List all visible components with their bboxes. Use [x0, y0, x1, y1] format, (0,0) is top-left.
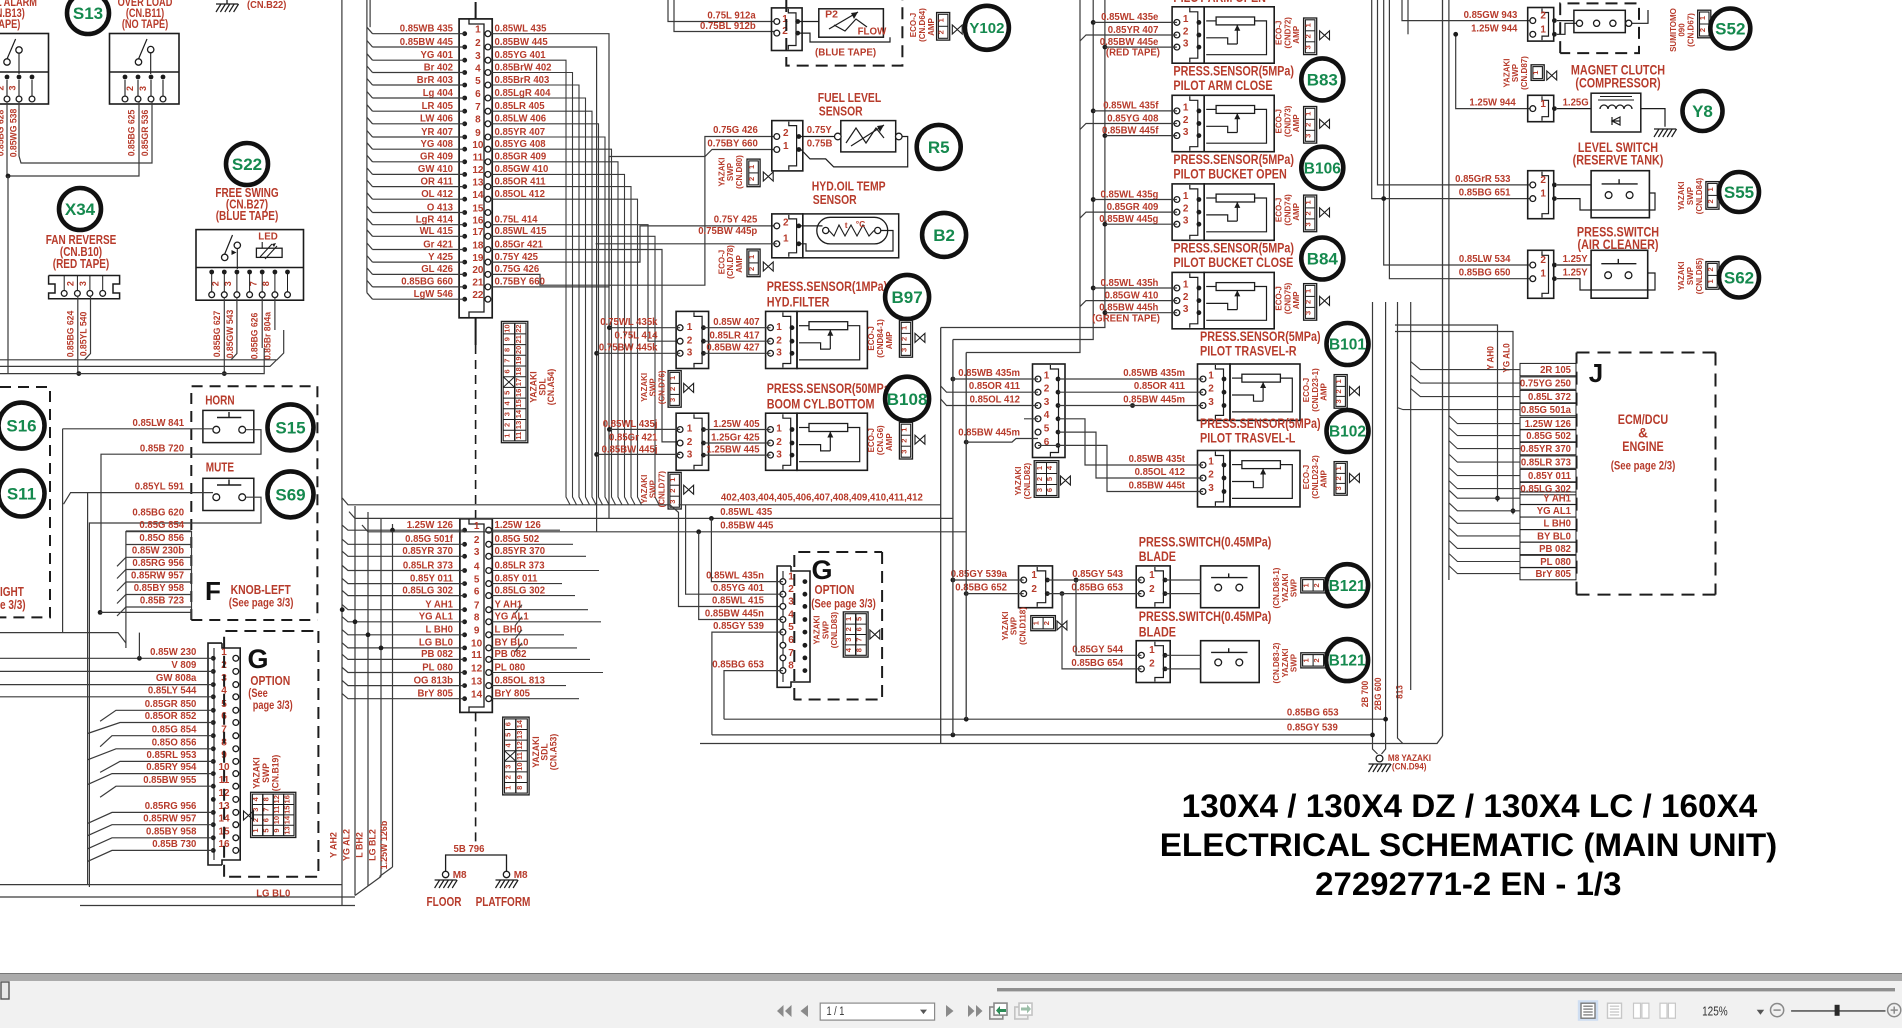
label S22 [226, 143, 268, 185]
svg-text:3: 3 [502, 412, 511, 416]
svg-text:R5: R5 [928, 138, 950, 157]
svg-text:3: 3 [8, 85, 18, 90]
wire 0.85BG 620 [89, 497, 261, 887]
pin 3 of 14-pin / net 0.85YR 370 [342, 546, 586, 559]
svg-text:7: 7 [474, 601, 480, 612]
svg-text:0.85BW 445: 0.85BW 445 [495, 37, 548, 48]
svg-text:1: 1 [668, 478, 677, 482]
title PRESS.SENSOR(5MPa) PILOT TRASVEL-L [1200, 416, 1321, 446]
svg-text:0.85BG 651: 0.85BG 651 [1459, 188, 1511, 199]
svg-text:2: 2 [900, 337, 909, 341]
wire 0.85GY 539 drop [712, 632, 783, 735]
wire 0.85B 720 [101, 430, 261, 613]
svg-text:HYD.FILTER: HYD.FILTER [767, 295, 830, 310]
svg-text:4: 4 [474, 561, 480, 572]
svg-text:0.85RG 956: 0.85RG 956 [132, 558, 184, 569]
zoom dropdown arrow [1757, 1010, 1765, 1015]
svg-text:3: 3 [1183, 127, 1189, 138]
left merge bus of 22-pin [367, 0, 370, 293]
pin 11 of 14-pin / net PB 082 [342, 649, 590, 662]
pin 16 of G option / wire 0.85B 730 [88, 839, 239, 861]
svg-text:B83: B83 [1307, 71, 1338, 90]
wire 0.85BG 627 [212, 297, 224, 374]
svg-text:11: 11 [471, 650, 482, 661]
svg-text:3: 3 [1183, 216, 1189, 227]
svg-text:PL 080: PL 080 [1540, 557, 1571, 568]
pin 22 of 22-pin / net LgW 546 [367, 289, 491, 302]
svg-text:0.75G 426: 0.75G 426 [495, 264, 540, 275]
label S13 [67, 0, 109, 34]
title PRESS.SWITCH(0.45MPa) BLADE #1 [1139, 534, 1272, 564]
pin 8 of 14-pin / net YG AL1 [342, 612, 601, 626]
svg-text:130X4 / 130X4 DZ / 130X4 LC /: 130X4 / 130X4 DZ / 130X4 LC / 160X4 [1182, 788, 1758, 824]
pin 21 of 22-pin / net 0.85BG 660 [367, 277, 545, 290]
svg-text:GW 410: GW 410 [418, 164, 453, 175]
svg-text:AMP: AMP [1319, 470, 1329, 488]
svg-text:(CN.B22): (CN.B22) [247, 0, 286, 11]
svg-text:0.85B 723: 0.85B 723 [140, 595, 184, 606]
svg-text:0.85GY 539: 0.85GY 539 [713, 621, 764, 632]
pin 9 of G option / wire 0.85RL 953 [100, 750, 239, 772]
svg-text:2: 2 [125, 86, 135, 91]
svg-text:1.25W 126: 1.25W 126 [1525, 419, 1572, 430]
svg-text:0.85OR 411: 0.85OR 411 [495, 176, 546, 187]
svg-text:FLOOR: FLOOR [427, 895, 462, 909]
bus risers to ECM rows [1411, 0, 1449, 690]
svg-text:14: 14 [514, 409, 523, 418]
svg-text:0.85WG 538: 0.85WG 538 [9, 109, 19, 158]
svg-text:3: 3 [474, 547, 480, 558]
svg-text:BrY 805: BrY 805 [418, 689, 454, 700]
svg-text:B121: B121 [1329, 653, 1366, 670]
svg-text:2: 2 [1304, 34, 1313, 38]
svg-text:12: 12 [515, 741, 524, 749]
svg-text:S11: S11 [7, 485, 36, 504]
pressure sensor B97 [599, 311, 709, 368]
svg-text:0.85G 854: 0.85G 854 [139, 520, 184, 531]
svg-text:0.85Gr 421: 0.85Gr 421 [609, 432, 658, 443]
label B97 [885, 275, 929, 319]
nav last-page button [968, 1005, 983, 1017]
svg-text:G: G [811, 555, 832, 585]
net 0.85G 501a into ECM [1398, 403, 1577, 416]
svg-text:0.75BL 912b: 0.75BL 912b [700, 21, 756, 32]
svg-text:0.85B 730: 0.85B 730 [152, 839, 196, 850]
svg-text:YR 407: YR 407 [421, 127, 453, 138]
svg-text:1: 1 [1208, 370, 1214, 381]
svg-text:0.85BW 445e: 0.85BW 445e [1100, 37, 1159, 48]
svg-text:2: 2 [502, 423, 511, 427]
svg-text:1: 1 [1304, 289, 1313, 293]
pin icon AMP ECO-J (CN.D64) [908, 8, 962, 42]
drawing title text [1160, 788, 1778, 902]
svg-text:YG AL0: YG AL0 [1502, 343, 1512, 372]
bus pilot column risers [941, 0, 1105, 353]
net 2R 105 into ECM [1411, 362, 1576, 376]
svg-text:3: 3 [900, 450, 909, 454]
pin 1 of G option / wire 0.85W 230 [0, 647, 239, 661]
svg-text:0.85WL 435: 0.85WL 435 [495, 24, 547, 35]
svg-text:3: 3 [138, 86, 148, 91]
svg-text:L BH0: L BH0 [1544, 519, 1572, 530]
pin 7 of 22-pin / net LR 405 [367, 101, 545, 114]
svg-text:Y AH1: Y AH1 [425, 600, 453, 611]
label S62 [1719, 258, 1759, 298]
svg-text:SWP: SWP [1289, 654, 1299, 672]
svg-text:0.85GR 409: 0.85GR 409 [495, 152, 547, 163]
svg-text:2: 2 [747, 177, 756, 181]
svg-text:OR 411: OR 411 [421, 176, 454, 187]
svg-text:0.85LR 373: 0.85LR 373 [1521, 458, 1571, 469]
svg-text:0.85Gr 421: 0.85Gr 421 [495, 239, 544, 250]
pin icon AMP ECO-J (CN.G6) [866, 422, 925, 459]
svg-text:13: 13 [282, 826, 291, 834]
svg-text:3: 3 [1044, 397, 1050, 408]
svg-text:9: 9 [475, 128, 481, 139]
pin 16 of 22-pin / net LgR 414 [367, 215, 538, 228]
pressure sensor pilot arm open [1100, 7, 1204, 63]
svg-text:S15: S15 [275, 419, 305, 438]
svg-text:LED: LED [258, 231, 278, 243]
svg-text:YG AL1: YG AL1 [495, 612, 529, 623]
svg-text:0.85WL 435n: 0.85WL 435n [706, 571, 764, 582]
svg-text:20: 20 [472, 265, 484, 276]
rail 0.85BG 653 [724, 707, 1386, 719]
pin 18 of 22-pin / net Gr 421 [367, 239, 543, 252]
svg-text:S69: S69 [275, 486, 305, 505]
svg-text:8: 8 [474, 613, 480, 624]
connector lower 14-pin [460, 519, 492, 843]
svg-text:S22: S22 [232, 155, 262, 174]
pin 3 of G option / wire GW 808a [0, 673, 239, 687]
svg-text:1: 1 [474, 521, 480, 532]
svg-text:0.85WL 435: 0.85WL 435 [720, 507, 772, 518]
svg-text:1: 1 [1531, 71, 1540, 75]
svg-text:3: 3 [844, 638, 853, 642]
wire to lower rail [7, 176, 9, 374]
svg-text:2: 2 [1044, 384, 1050, 395]
pin icon YAZAKI SWP (CN.D87) [1501, 56, 1556, 90]
pressure sensor pilot arm close [1102, 95, 1204, 151]
pin 4 of option 8-pin / wire 0.85BW 445n [705, 608, 807, 622]
svg-text:0.75L 414: 0.75L 414 [615, 331, 658, 342]
net PL 080 into ECM [1449, 554, 1576, 568]
valve P2 flow (blue tape) [668, 0, 890, 58]
svg-text:1.25W 944: 1.25W 944 [1469, 98, 1516, 109]
svg-text:0.85LG 302: 0.85LG 302 [495, 585, 546, 596]
svg-text:0.85OR 411: 0.85OR 411 [1134, 381, 1185, 392]
svg-text:0.85WB 435m: 0.85WB 435m [958, 368, 1020, 379]
svg-text:5: 5 [475, 76, 481, 87]
svg-text:AMP: AMP [926, 18, 936, 36]
svg-text:3: 3 [900, 348, 909, 352]
net LG BL0 [0, 885, 355, 900]
svg-text:1: 1 [1540, 99, 1546, 110]
svg-text:BOOM CYL.BOTTOM: BOOM CYL.BOTTOM [767, 397, 875, 412]
svg-text:3: 3 [1304, 134, 1313, 138]
svg-text:3: 3 [1304, 45, 1313, 49]
svg-text:AMP: AMP [1291, 26, 1301, 44]
wire 0.75G 426 to R5 [491, 137, 777, 286]
svg-text:PILOT TRASVEL-L: PILOT TRASVEL-L [1200, 431, 1295, 446]
pressure sensor pilot travel-L connector [1129, 451, 1230, 507]
svg-text:0.85WL 415: 0.85WL 415 [712, 595, 764, 606]
svg-text:0.85RW 957: 0.85RW 957 [131, 570, 184, 581]
svg-text:2: 2 [783, 217, 789, 228]
label B83 [1301, 58, 1343, 100]
svg-text:0.75BY 660: 0.75BY 660 [707, 139, 758, 150]
svg-text:PRESS.SENSOR(5MPa): PRESS.SENSOR(5MPa) [1200, 329, 1321, 344]
wire 5B 796 with M8 grounds FLOOR / PLATFORM [427, 844, 531, 909]
label B102 [1327, 410, 1369, 452]
svg-text:BrY 805: BrY 805 [1536, 569, 1572, 580]
vertical feeder x87.6 [87, 493, 89, 885]
svg-text:0.85LW 841: 0.85LW 841 [133, 418, 185, 429]
svg-text:14: 14 [515, 719, 524, 728]
nav first-page button [777, 1005, 792, 1017]
svg-text:3: 3 [1208, 397, 1214, 408]
pin 11 of 22-pin / net GR 409 [367, 152, 547, 165]
svg-text:0.85LR 373: 0.85LR 373 [495, 560, 545, 571]
wire 0.85BG 624 [66, 296, 78, 374]
svg-text:1: 1 [844, 617, 853, 621]
junction B97 pin1 [607, 325, 612, 330]
svg-text:813: 813 [1395, 685, 1405, 699]
svg-text:GR 409: GR 409 [420, 152, 453, 163]
wire 0.85Br 804a [262, 297, 275, 360]
svg-text:20: 20 [514, 346, 523, 354]
svg-text:(See: (See [248, 688, 267, 700]
vertical feeder x62.6 [62, 429, 64, 633]
svg-text:1: 1 [1706, 279, 1715, 283]
svg-text:0.85OL 412: 0.85OL 412 [495, 189, 546, 200]
svg-text:3: 3 [776, 348, 782, 359]
svg-text:WL 415: WL 415 [420, 226, 454, 237]
svg-text:5: 5 [1044, 424, 1050, 435]
wire 0.85Gr 421 to B108 [491, 250, 680, 442]
svg-text:1.25Y: 1.25Y [1563, 254, 1588, 265]
svg-text:(GREEN TAPE): (GREEN TAPE) [1092, 313, 1160, 324]
label LEVEL SWITCH (RESERVE TANK) [1573, 140, 1664, 168]
svg-text:1: 1 [1334, 466, 1343, 470]
svg-text:0.85OR 411: 0.85OR 411 [969, 381, 1020, 392]
pin 10 of 22-pin / net YG 408 [367, 139, 546, 152]
svg-text:0.85GY 539: 0.85GY 539 [1287, 723, 1338, 734]
svg-text:1: 1 [1031, 621, 1040, 625]
svg-text:(RED TAPE): (RED TAPE) [53, 257, 110, 271]
wire 0.85BW 445 riser [491, 47, 597, 532]
svg-text:11: 11 [514, 432, 523, 440]
net Y AH1 into ECM [1449, 490, 1576, 504]
svg-text:1: 1 [687, 424, 693, 435]
svg-text:YG 401: YG 401 [421, 50, 454, 61]
svg-text:0.85G 501a: 0.85G 501a [1521, 405, 1571, 416]
svg-text:0.85LR 417: 0.85LR 417 [710, 331, 760, 342]
svg-text:1: 1 [1149, 570, 1155, 581]
svg-text:21: 21 [514, 335, 523, 343]
wire 0.85O 856 [126, 533, 192, 545]
svg-text:0.85WL 435h: 0.85WL 435h [1101, 278, 1159, 289]
svg-text:2B 700: 2B 700 [1360, 681, 1370, 707]
svg-text:0.85WB 435m: 0.85WB 435m [1123, 368, 1185, 379]
pin icon YAZAKI SWP (CN.D80) [716, 155, 773, 189]
svg-text:2: 2 [782, 26, 788, 37]
pin grid icon YAZAKI SDL (CN.A54) [501, 321, 556, 442]
svg-text:9: 9 [474, 626, 480, 637]
svg-text:2: 2 [844, 627, 853, 631]
dashed enclosure G option [224, 631, 318, 877]
svg-text:1: 1 [1035, 466, 1044, 470]
pin icon AMP ECO-J (CN.D84-1) [866, 319, 925, 358]
pin icon AMP ECO-J (CN.D78) [716, 245, 773, 279]
svg-text:6: 6 [1044, 437, 1050, 448]
svg-text:1: 1 [782, 14, 788, 25]
svg-text:0.85BW 955: 0.85BW 955 [143, 775, 196, 786]
svg-text:11: 11 [515, 752, 524, 760]
svg-text:PB 082: PB 082 [1539, 544, 1571, 555]
svg-text:2: 2 [1304, 300, 1313, 304]
svg-text:10: 10 [471, 639, 483, 650]
pin 4 of G option / wire 0.85LY 544 [0, 685, 239, 699]
svg-text:2: 2 [776, 335, 782, 346]
svg-text:1: 1 [783, 233, 789, 244]
svg-text:0.85RG 956: 0.85RG 956 [145, 801, 197, 812]
svg-text:1: 1 [900, 428, 909, 432]
svg-text:22: 22 [472, 290, 484, 301]
svg-text:1.25G: 1.25G [1563, 98, 1589, 109]
svg-text:0.85OL 412: 0.85OL 412 [1135, 467, 1186, 478]
label B108 [885, 377, 929, 421]
svg-text:17: 17 [514, 378, 523, 386]
wire 0.85BG 653 drop [724, 671, 783, 720]
wire 0.85BW 445n drop [699, 532, 783, 620]
svg-text:1: 1 [1334, 379, 1343, 383]
wire 2B 700 [1360, 302, 1378, 754]
svg-text:MUTE: MUTE [206, 461, 234, 475]
net 0.85YR 370 into ECM [1449, 441, 1576, 455]
svg-text:0.85GrR 533: 0.85GrR 533 [1455, 174, 1511, 185]
svg-text:t: t [845, 220, 848, 230]
svg-text:0.85LG 302: 0.85LG 302 [402, 585, 453, 596]
pin 8 of G option / wire 0.85O 856 [88, 737, 239, 759]
dashed enclosure ECM/DCU J [1577, 353, 1716, 595]
svg-text:1.25W 405: 1.25W 405 [713, 419, 760, 430]
svg-text:AMP: AMP [1291, 291, 1301, 309]
svg-text:1: 1 [747, 165, 756, 169]
connector blade switch #2 (CN.D83-2) [1071, 641, 1170, 683]
svg-text:(CN.A54): (CN.A54) [546, 369, 556, 406]
svg-text:5: 5 [504, 733, 513, 737]
svg-text:(CN.D76): (CN.D76) [657, 370, 667, 404]
svg-text:18: 18 [472, 240, 484, 251]
label S55 [1719, 172, 1759, 212]
svg-text:0.85G 502: 0.85G 502 [1526, 431, 1571, 442]
junction X34 wires [76, 371, 81, 376]
svg-text:2: 2 [747, 267, 756, 271]
svg-text:0.85YG 401: 0.85YG 401 [495, 50, 546, 61]
svg-text:(See page 3/3): (See page 3/3) [229, 596, 294, 610]
svg-text:1.25Y: 1.25Y [1563, 268, 1588, 279]
svg-text:4: 4 [475, 63, 481, 74]
net YG AL1 into ECM [1449, 503, 1576, 517]
wire 0.75BW 445k feed [594, 351, 680, 356]
junction 0.85W 230 [137, 656, 142, 661]
svg-text:2: 2 [1334, 476, 1343, 480]
svg-text:e 3/3): e 3/3) [0, 598, 26, 612]
svg-text:0.85Y 011: 0.85Y 011 [410, 573, 453, 584]
svg-text:B97: B97 [892, 288, 923, 307]
pin icon YAZAKI SWP (CN.D76) [639, 370, 694, 407]
connector label YAZAKI SWP (CN.B19) [252, 755, 281, 792]
pin 10 of 14-pin / net LG BL0 [342, 638, 577, 652]
svg-text:AMP: AMP [884, 433, 894, 451]
svg-text:YG 408: YG 408 [421, 139, 454, 150]
svg-text:AMP: AMP [1291, 203, 1301, 221]
svg-text:PRESS.SWITCH(0.45MPa): PRESS.SWITCH(0.45MPa) [1139, 609, 1272, 624]
svg-text:1.25BW 445: 1.25BW 445 [706, 445, 759, 456]
svg-text:IGHT: IGHT [0, 585, 24, 599]
pin 19 of 22-pin / net Y 425 [367, 252, 538, 265]
svg-text:0.85BW 445f: 0.85BW 445f [1102, 125, 1159, 136]
svg-text:0.85YR 407: 0.85YR 407 [495, 127, 546, 138]
svg-text:1: 1 [1304, 23, 1313, 27]
svg-text:16: 16 [472, 216, 484, 227]
svg-text:13: 13 [472, 177, 484, 188]
svg-text:1 / 1: 1 / 1 [827, 1006, 845, 1018]
zoom in button [1888, 1004, 1901, 1017]
svg-text:0.85BW 445m: 0.85BW 445m [958, 428, 1020, 439]
pin 13 of 22-pin / net OR 411 [367, 176, 546, 189]
net 1.25W 126 into ECM [1449, 416, 1576, 430]
svg-text:0.85BW 427: 0.85BW 427 [706, 343, 759, 354]
svg-text:2: 2 [1183, 115, 1189, 126]
svg-text:3: 3 [1304, 311, 1313, 315]
title PRESS.SENSOR(5MPa) PILOT TRASVEL-R [1200, 329, 1321, 359]
svg-text:3: 3 [78, 281, 88, 286]
svg-text:1: 1 [1183, 191, 1189, 202]
pin icon ECO-J (CN.LD23-2) [1301, 455, 1359, 499]
pin 9 of 22-pin / net YR 407 [367, 127, 545, 140]
wire 0.75BW 445p long rail [596, 243, 777, 245]
svg-text:0.85BG 624: 0.85BG 624 [66, 310, 76, 357]
wire 0.85WL 415 riser [491, 236, 659, 505]
ground (CN.B22) [216, 0, 286, 12]
svg-text:2: 2 [668, 387, 677, 391]
sensor body B97 [797, 311, 867, 368]
svg-text:SENSOR: SENSOR [813, 192, 857, 207]
svg-text:OPTION: OPTION [815, 582, 855, 597]
svg-text:2R 105: 2R 105 [1540, 365, 1571, 376]
pin 5 of G option / wire 0.85GR 850 [100, 699, 239, 721]
wire 0.85WL 435 riser [491, 34, 609, 519]
pressure sensor pilot travel-R connector [1058, 364, 1230, 420]
pin 15 of G option / wire 0.85BY 958 [88, 826, 239, 848]
wire YG AL2 [342, 506, 356, 896]
svg-text:5: 5 [502, 391, 511, 395]
net 0.85LR 373 into ECM [1449, 454, 1576, 468]
wire 0.85W 230b [117, 546, 192, 567]
pin 14 of 22-pin / net OL 412 [367, 189, 545, 202]
svg-text:0.85GR 409: 0.85GR 409 [1107, 202, 1159, 213]
svg-text:0.85BG 654: 0.85BG 654 [1071, 658, 1123, 669]
svg-text:13: 13 [514, 421, 523, 429]
svg-text:0.75B: 0.75B [807, 139, 833, 150]
svg-text:(CN.D94): (CN.D94) [1392, 762, 1427, 772]
svg-text:1: 1 [747, 255, 756, 259]
svg-text:0.85BrR 403: 0.85BrR 403 [495, 75, 550, 86]
svg-text:LgW 546: LgW 546 [414, 289, 454, 300]
svg-text:0.75BY 660: 0.75BY 660 [495, 277, 546, 288]
